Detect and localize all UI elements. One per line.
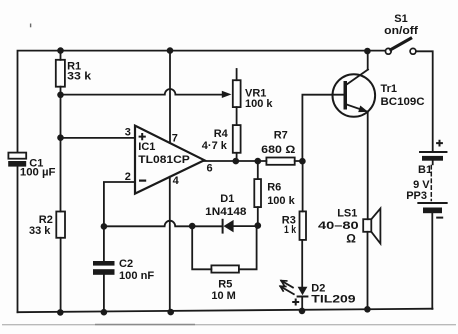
svg-text:R6: R6 — [267, 181, 281, 193]
node R6/output — [254, 158, 261, 165]
switch S1 — [385, 38, 432, 151]
node D1/R5/R6 right — [254, 222, 261, 229]
svg-text:B1: B1 — [418, 164, 432, 176]
svg-text:3: 3 — [125, 127, 131, 139]
svg-text:1N4148: 1N4148 — [205, 206, 246, 218]
svg-text:TIL209: TIL209 — [311, 293, 355, 305]
svg-text:D1: D1 — [220, 193, 234, 205]
svg-text:Tr1: Tr1 — [381, 83, 398, 95]
potentiometer VR1 wiper arrowhead — [222, 91, 232, 98]
scan artifact streak bottom — [2, 324, 456, 326]
svg-text:100 µF: 100 µF — [20, 167, 56, 179]
transistor Tr1 — [333, 70, 376, 117]
op-amp minus input sign — [139, 180, 146, 182]
node speaker bottom rail — [364, 306, 371, 313]
svg-text:100 k: 100 k — [267, 195, 295, 207]
resistor R2 — [56, 212, 65, 313]
svg-text:4·7 k: 4·7 k — [202, 140, 228, 152]
svg-text:100 k: 100 k — [245, 98, 273, 110]
potentiometer VR1 — [233, 69, 241, 107]
node A (R1/R2 divider) — [57, 92, 64, 99]
svg-text:4: 4 — [173, 175, 180, 187]
LED D2 — [280, 281, 307, 311]
wire pin3 horizontal — [61, 137, 136, 139]
op-amp IC1 triangle — [135, 126, 204, 194]
svg-text:R4: R4 — [214, 128, 229, 140]
scan artifact tick top-left — [30, 24, 32, 28]
node pin3 — [57, 134, 64, 141]
op-amp plus input sign — [139, 133, 146, 140]
svg-text:33 k: 33 k — [67, 71, 92, 83]
LED D2 plus sign — [292, 299, 299, 306]
node R7/base/R3 — [299, 158, 306, 165]
node D2 bottom rail — [299, 308, 306, 315]
node R2 bottom rail — [57, 309, 64, 316]
resistor R6 — [254, 179, 261, 226]
node C2 bottom rail — [101, 309, 108, 316]
svg-text:Ω: Ω — [346, 232, 356, 246]
node pin2/C2/D1 — [101, 223, 108, 230]
resistor R7 — [266, 158, 294, 165]
node R4/output — [233, 158, 240, 165]
wire VR1 to R4 — [236, 107, 238, 125]
wire base branch — [302, 95, 343, 162]
battery plus sign — [436, 140, 443, 147]
svg-text:on/off: on/off — [384, 25, 418, 37]
node pin4 bottom rail — [167, 309, 174, 316]
wire bottom rail — [18, 309, 433, 313]
svg-text:LS1: LS1 — [337, 208, 357, 220]
polarity and input signs — [139, 133, 444, 306]
svg-text:2: 2 — [125, 171, 131, 183]
wire pin 4 to bottom rail — [169, 177, 171, 312]
wire D1 row (with hop over pin4 wire) — [104, 221, 222, 227]
svg-text:R7: R7 — [274, 129, 288, 141]
svg-text:TL081CP: TL081CP — [138, 154, 190, 166]
wire R3 top — [302, 161, 304, 211]
wire op-amp output rail — [204, 160, 302, 162]
battery B1 — [418, 152, 446, 309]
node collector/switch on rail — [364, 48, 371, 55]
wire wiper from node A to VR1 (with hop over pin7 wire) — [61, 89, 222, 95]
svg-text:40–80: 40–80 — [318, 220, 359, 232]
node D1/R5 left — [189, 223, 196, 230]
wire collector up — [367, 51, 369, 70]
svg-text:R5: R5 — [218, 278, 232, 290]
speaker LS1 — [363, 209, 380, 310]
svg-text:S1: S1 — [394, 13, 407, 25]
wire positive rail top — [18, 51, 386, 153]
svg-text:BC109C: BC109C — [381, 96, 425, 108]
wire R6 top — [257, 161, 259, 179]
resistor R5 — [192, 226, 256, 273]
svg-text:10 M: 10 M — [211, 290, 235, 302]
resistor R3 — [300, 211, 307, 286]
wire emitter down to speaker — [367, 112, 369, 220]
wire node A to pin3 node — [60, 95, 62, 138]
resistor R1 — [56, 51, 65, 95]
capacitor C2 — [93, 226, 115, 312]
node R1 top on rail — [57, 47, 64, 54]
svg-text:100 nF: 100 nF — [119, 270, 154, 282]
diode D1 — [223, 220, 258, 233]
resistor R4 — [233, 125, 241, 161]
wire pin3 node down to R2 — [60, 138, 62, 212]
svg-text:IC1: IC1 — [138, 141, 155, 153]
svg-text:1 k: 1 k — [284, 224, 297, 236]
svg-text:33 k: 33 k — [29, 225, 51, 237]
battery minus sign — [436, 217, 443, 219]
svg-text:7: 7 — [172, 133, 178, 145]
wire left rail lower — [17, 167, 19, 313]
node pin7 wire on rail — [167, 47, 174, 54]
svg-text:680 Ω: 680 Ω — [261, 144, 295, 156]
wire pin 2 to C2 node — [104, 182, 135, 226]
svg-text:PP3: PP3 — [406, 190, 427, 202]
svg-text:6: 6 — [207, 162, 213, 174]
svg-text:C2: C2 — [119, 258, 133, 270]
capacitor C1 — [8, 153, 26, 167]
wire pin 7 from rail — [169, 51, 171, 143]
